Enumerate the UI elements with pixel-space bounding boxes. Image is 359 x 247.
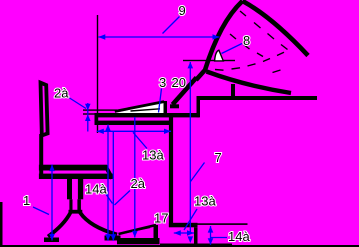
hinge axis line (183, 60, 235, 61)
board strut (173, 78, 197, 105)
rear shelf (197, 96, 318, 100)
chair column lower section (69, 199, 72, 210)
floor line under desk (160, 244, 232, 247)
board bottom edge (207, 72, 292, 94)
svg-text:3: 3 (159, 75, 166, 90)
chair seat top slab (39, 165, 106, 171)
dimension 8 leader (222, 44, 243, 54)
desk step vertical (197, 96, 201, 117)
dimension tick lower (2a) (83, 113, 95, 114)
chair right foot pad (105, 236, 121, 241)
board support post (231, 84, 235, 97)
footrest plinth (117, 238, 160, 244)
dimension vertical V4 (111, 131, 131, 241)
hinge semicircle (215, 50, 224, 61)
svg-text:13à: 13à (194, 194, 216, 209)
svg-text:17: 17 (154, 211, 168, 226)
desk lower rail (95, 121, 174, 125)
svg-text:14à: 14à (228, 229, 250, 244)
board right edge (243, 1, 309, 56)
svg-text:1: 1 (23, 193, 30, 208)
desk leg (169, 117, 173, 227)
footrest wedge top edge (119, 225, 157, 234)
dimension 14a-2 vertical (208, 226, 227, 245)
wedge inner line (131, 109, 161, 111)
svg-text:20: 20 (172, 75, 186, 90)
dimension vertical V3 (105, 125, 112, 241)
inclined wedge white fill (116, 102, 164, 113)
svg-text:8: 8 (243, 33, 250, 48)
dimension vertical V1 (chair seat height) (33, 165, 55, 241)
svg-text:14à: 14à (85, 182, 107, 197)
dimension 13a-2 horizontal (174, 209, 197, 236)
svg-text:9: 9 (179, 3, 186, 18)
chair column right wall (78, 179, 83, 199)
runner top extension line (198, 223, 248, 225)
strut foot pad (170, 104, 179, 108)
dimension 9 line (98, 17, 219, 40)
svg-text:2à: 2à (131, 176, 146, 191)
dimension vertical V5 (132, 117, 138, 238)
desktop front bar (95, 113, 200, 117)
chair seat front bevel (105, 166, 112, 179)
wedge top edge (115, 102, 164, 112)
chair column left wall (67, 179, 72, 199)
svg-text:7: 7 (215, 150, 222, 165)
dimension 2a-1 vertical (68, 97, 91, 132)
desk front extension line (97, 15, 98, 133)
svg-text:13à: 13à (142, 148, 164, 163)
footrest wedge inner line (124, 228, 150, 234)
board sketch dashes row C (215, 52, 284, 72)
chair base hub block (69, 210, 83, 214)
dimension tick upper (2a) (83, 109, 117, 110)
board left edge (196, 1, 243, 80)
board sketch dashes row B (230, 34, 263, 57)
chair backrest (41, 83, 48, 136)
svg-text:2à: 2à (54, 86, 69, 101)
chair left foot pad (44, 238, 59, 243)
desk foot runner (169, 223, 198, 228)
footrest right cap (154, 225, 159, 238)
left border segment (0, 202, 3, 247)
wedge right cap (164, 101, 168, 113)
chair base right flare (80, 213, 117, 235)
dimension 20/7 vertical line (159, 62, 205, 243)
bottom border line (0, 245, 359, 247)
desk foot step down (194, 227, 198, 245)
dimension 13a-1 horizontal (97, 129, 171, 149)
chair base left flare (48, 213, 71, 237)
board sketch dashes row A (240, 11, 288, 50)
chair backrest post (39, 134, 43, 179)
chair seat bottom slab (39, 174, 113, 179)
